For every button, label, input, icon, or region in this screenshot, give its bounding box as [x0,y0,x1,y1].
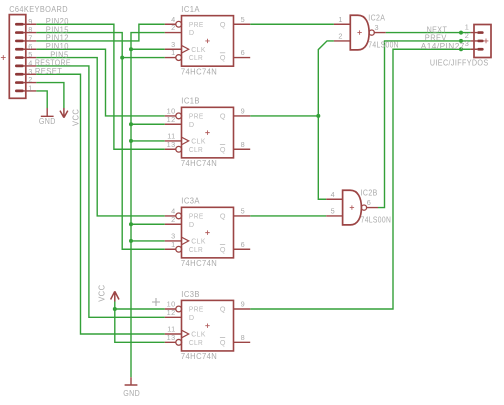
svg-text:3: 3 [465,39,470,48]
svg-text:5: 5 [331,207,336,216]
svg-text:1: 1 [338,15,343,24]
svg-text:IC2A: IC2A [368,13,385,23]
svg-text:CLR: CLR [189,245,203,254]
svg-text:Q: Q [220,20,226,29]
svg-text:4: 4 [331,190,336,199]
svg-text:UIEC/JIFFYDOS: UIEC/JIFFYDOS [430,58,489,68]
svg-text:5: 5 [241,15,246,24]
svg-text:13: 13 [167,140,176,149]
svg-text:6: 6 [367,198,372,207]
svg-text:D: D [189,120,195,129]
svg-text:Q: Q [220,53,226,62]
svg-text:IC1B: IC1B [181,96,200,106]
svg-text:74LS00N: 74LS00N [361,215,392,225]
svg-text:Q: Q [220,305,226,314]
svg-text:74HC74N: 74HC74N [181,351,217,361]
svg-text:VCC: VCC [70,109,80,126]
svg-text:8: 8 [241,140,246,149]
svg-text:IC2B: IC2B [361,188,378,198]
svg-text:8: 8 [241,333,246,342]
svg-text:GND: GND [39,116,56,126]
svg-text:1: 1 [171,48,176,57]
svg-text:CLR: CLR [189,338,203,347]
svg-text:A14/PIN27: A14/PIN27 [421,41,465,51]
svg-text:GND: GND [123,388,140,398]
svg-text:CLR: CLR [189,53,203,62]
svg-text:VCC: VCC [96,285,106,302]
svg-text:IC3B: IC3B [181,289,200,299]
svg-text:Q: Q [220,245,226,254]
svg-text:Q: Q [220,111,226,120]
svg-text:74HC74N: 74HC74N [181,258,217,268]
svg-text:CLR: CLR [189,145,203,154]
svg-text:D: D [189,313,195,322]
svg-text:Q: Q [220,211,226,220]
svg-text:1: 1 [171,240,176,249]
svg-text:Q: Q [220,145,226,154]
svg-text:D: D [189,220,195,229]
svg-text:2: 2 [171,23,176,32]
svg-text:6: 6 [241,48,246,57]
svg-text:12: 12 [167,308,176,317]
svg-text:6: 6 [241,240,246,249]
svg-text:74HC74N: 74HC74N [181,158,217,168]
svg-text:74HC74N: 74HC74N [181,66,217,76]
svg-text:RESET: RESET [35,66,63,76]
svg-text:12: 12 [167,115,176,124]
svg-text:3: 3 [375,23,380,32]
svg-text:2: 2 [171,215,176,224]
svg-text:13: 13 [167,333,176,342]
svg-text:D: D [189,28,195,37]
svg-text:9: 9 [241,300,246,309]
svg-text:9: 9 [241,107,246,116]
svg-text:Q: Q [220,338,226,347]
svg-text:IC1A: IC1A [181,4,200,14]
svg-text:C64KEYBOARD: C64KEYBOARD [9,4,68,14]
svg-text:5: 5 [241,207,246,216]
svg-text:74LS00N: 74LS00N [368,40,399,50]
svg-text:IC3A: IC3A [181,196,200,206]
svg-text:2: 2 [338,32,343,41]
svg-text:1: 1 [28,84,33,93]
